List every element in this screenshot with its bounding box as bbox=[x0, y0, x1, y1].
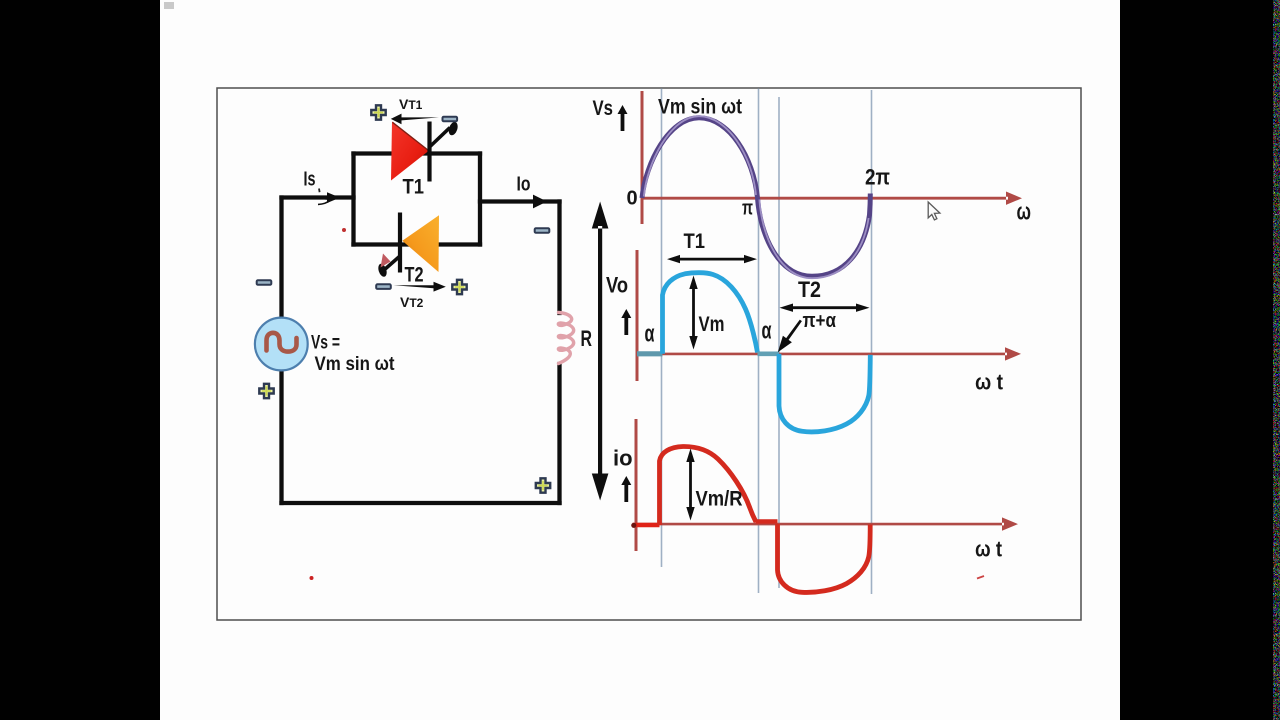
thyristor T2 gate dot bbox=[377, 263, 388, 278]
svg-text:Vo: Vo bbox=[606, 273, 628, 298]
svg-text:Vm: Vm bbox=[699, 313, 725, 336]
svg-text:R: R bbox=[581, 326, 593, 351]
svg-text:2π: 2π bbox=[865, 165, 890, 190]
AC source circle bbox=[255, 318, 308, 371]
wire input horizontal with Is bbox=[282, 195, 354, 199]
io up arrow bbox=[621, 476, 631, 502]
parallel box right vertical bbox=[478, 154, 482, 245]
smudge top bbox=[164, 2, 174, 9]
grid line pi bbox=[758, 89, 760, 594]
parallel box top branch wire bbox=[354, 151, 481, 155]
io vertical axis bbox=[635, 419, 638, 551]
svg-text:io: io bbox=[613, 446, 633, 471]
wire output horizontal bbox=[480, 199, 560, 203]
parallel box left vertical bbox=[351, 154, 355, 245]
grid line 2pi bbox=[871, 90, 873, 594]
wire left vertical top (source top to node) bbox=[279, 198, 283, 318]
svg-text:0: 0 bbox=[627, 188, 638, 210]
pi+alpha pointer arrow bbox=[778, 320, 802, 353]
T1 dimension arrow bbox=[667, 255, 757, 263]
Vo negative hump bbox=[779, 354, 870, 432]
plus symbol below source bbox=[259, 384, 273, 398]
wire bottom rail bbox=[282, 501, 560, 505]
T2 gate red mark bbox=[381, 254, 391, 268]
parallel box bottom branch wire bbox=[354, 242, 481, 246]
minus symbol near VT1 cathode bbox=[443, 117, 458, 122]
svg-text:Vm sin ωt: Vm sin ωt bbox=[315, 354, 396, 375]
svg-text:T2: T2 bbox=[405, 264, 424, 287]
Io arrow bbox=[504, 195, 547, 209]
Vs sine positive half bbox=[642, 118, 758, 198]
mouse cursor bbox=[928, 202, 940, 220]
svg-text:ω t: ω t bbox=[975, 370, 1004, 395]
VT2 arrow (pointing right) bbox=[394, 282, 446, 292]
svg-text:α: α bbox=[762, 318, 772, 345]
right edge noise strip bbox=[1273, 0, 1280, 720]
Vm dimension arrow bbox=[689, 276, 697, 350]
plus symbol near VT2 anode bbox=[452, 280, 466, 294]
svg-text:Is: Is bbox=[304, 169, 316, 191]
Is arrow bbox=[288, 192, 340, 205]
Vo up arrow bbox=[621, 309, 631, 335]
wire left vertical bottom (source to bottom rail) bbox=[279, 370, 283, 503]
thyristor T1 body bbox=[391, 122, 429, 181]
svg-text:Io: Io bbox=[517, 174, 531, 196]
io zero tail left bbox=[633, 523, 660, 528]
Vs sine highlight bbox=[644, 116, 756, 196]
slide frame bbox=[217, 88, 1081, 620]
tiny red dash bottom right bbox=[977, 576, 984, 579]
svg-text:VT2: VT2 bbox=[400, 294, 424, 310]
svg-text:Vs: Vs bbox=[593, 97, 614, 120]
thyristor T2 gate lead bbox=[384, 256, 400, 270]
omega-t axis (Vo) bbox=[636, 347, 1021, 360]
io negative hump bbox=[778, 524, 871, 592]
tiny red dot bottom left bbox=[310, 576, 314, 580]
minus symbol left wire bbox=[257, 280, 272, 285]
svg-text:Vm/R: Vm/R bbox=[696, 488, 743, 511]
Vo vertical axis bbox=[636, 250, 639, 381]
omega-t axis (io) bbox=[635, 517, 1018, 530]
svg-text:ω: ω bbox=[1017, 199, 1032, 226]
AC source sine glyph bbox=[267, 333, 297, 352]
svg-text:T2: T2 bbox=[798, 277, 821, 302]
resistor R coil bbox=[558, 313, 573, 364]
svg-text:Vm sin ωt: Vm sin ωt bbox=[658, 96, 742, 119]
T2 dimension arrow bbox=[780, 304, 870, 312]
Vo zero segment before alpha bbox=[637, 351, 663, 356]
plus symbol bottom right bbox=[536, 478, 550, 492]
Vo positive hump bbox=[663, 273, 758, 354]
thyristor T1 cathode bar bbox=[427, 122, 431, 182]
wire right vertical (load branch) bbox=[557, 202, 561, 504]
Vs sine negative half bbox=[758, 194, 871, 277]
svg-text:Vs =: Vs = bbox=[311, 333, 340, 354]
svg-text:α: α bbox=[645, 321, 655, 348]
svg-text:VT1: VT1 bbox=[399, 96, 423, 112]
minus symbol right wire bbox=[535, 228, 550, 233]
io positive hump bbox=[660, 446, 757, 525]
Vs up arrow bbox=[618, 105, 628, 131]
plus symbol near VT1 anode bbox=[371, 105, 385, 119]
svg-text:π+α: π+α bbox=[803, 310, 837, 332]
svg-text:T1: T1 bbox=[403, 176, 425, 199]
grid line pi+alpha bbox=[778, 97, 780, 588]
VT1 arrow (pointing left) bbox=[391, 114, 439, 125]
thyristor T1 gate lead bbox=[430, 128, 451, 148]
right black bar bbox=[1120, 0, 1280, 720]
Is tick mark bbox=[318, 189, 321, 193]
Vo zero segment pi..pi+alpha bbox=[758, 351, 780, 356]
Vs vertical axis bbox=[641, 91, 644, 224]
thyristor T2 body bbox=[402, 215, 439, 272]
io zero segment pi..pi+alpha bbox=[756, 519, 778, 523]
svg-text:ω t: ω t bbox=[975, 537, 1003, 562]
Vm/R dimension arrow bbox=[686, 449, 694, 521]
grid line alpha bbox=[661, 89, 663, 568]
omega axis (Vs) bbox=[642, 192, 1022, 205]
small red dot near box bbox=[342, 228, 346, 232]
thyristor T1 gate dot bbox=[447, 121, 459, 137]
long double arrow between circuit and waveforms bbox=[592, 202, 609, 501]
svg-text:T1: T1 bbox=[684, 230, 706, 253]
minus symbol near VT2 cathode bbox=[376, 284, 391, 289]
left black bar bbox=[0, 0, 160, 720]
svg-text:π: π bbox=[742, 198, 753, 220]
thyristor T2 cathode bar bbox=[398, 213, 402, 273]
